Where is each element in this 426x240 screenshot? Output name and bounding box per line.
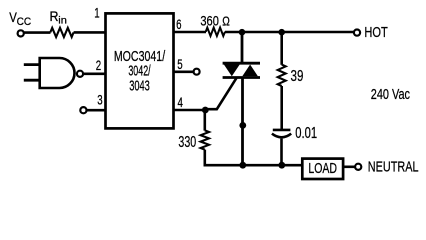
junction MT1 bottom rail	[239, 162, 246, 169]
triac Q1 top bar	[223, 62, 260, 65]
U1 value label MOC3041/3042/3043	[114, 48, 166, 95]
junction on MT1 wire	[239, 122, 246, 129]
junction capacitor bottom rail	[278, 162, 285, 169]
svg-text:360: 360	[200, 12, 219, 28]
wire pin 5	[174, 71, 194, 74]
wire triac MT2	[241, 32, 244, 63]
wire VCC to Rin	[24, 31, 51, 34]
svg-text:39: 39	[291, 68, 304, 85]
load box	[302, 159, 343, 179]
svg-text:0.01: 0.01	[295, 125, 317, 142]
resistor 360 ohm	[206, 28, 225, 36]
NAND gate U2 body	[40, 58, 75, 88]
svg-text:in: in	[58, 14, 67, 26]
NAND gate input wires	[24, 65, 41, 81]
wire 330 to bottom rail	[204, 150, 207, 167]
svg-text:Ω: Ω	[222, 13, 230, 28]
resistor Rin label	[50, 8, 68, 26]
svg-text:3: 3	[97, 91, 103, 107]
svg-text:240 Vac: 240 Vac	[371, 86, 411, 103]
op-coupler U1 MOC3041 box	[106, 13, 174, 128]
svg-text:6: 6	[176, 16, 182, 32]
pin 3 open terminal	[80, 107, 86, 113]
wire pin 6 to 360 resistor	[174, 31, 207, 34]
resistor Rin	[50, 28, 73, 37]
wire 360 resistor to HOT	[225, 31, 354, 34]
triac Q1 left triangle	[224, 65, 240, 77]
capacitor 0.01 top plate	[273, 129, 291, 132]
wire Rin to pin 1	[74, 31, 106, 34]
svg-text:4: 4	[178, 94, 184, 110]
svg-text:HOT: HOT	[364, 24, 387, 41]
junction triac MT2 top	[239, 29, 246, 36]
node VCC label	[9, 9, 31, 28]
NEUTRAL terminal	[355, 164, 361, 170]
junction snubber top	[278, 29, 285, 36]
svg-text:1: 1	[94, 5, 100, 21]
wire pin4 junction to 330 resistor	[204, 110, 207, 131]
wire triac gate	[205, 78, 236, 109]
wire triac MT1 down	[241, 79, 244, 166]
svg-text:5: 5	[177, 56, 183, 72]
svg-text:3043: 3043	[129, 77, 150, 94]
svg-text:NEUTRAL: NEUTRAL	[368, 158, 419, 175]
wire capacitor to bottom rail	[280, 139, 283, 166]
resistor 39	[278, 65, 286, 86]
resistor 330	[201, 130, 209, 149]
svg-text:CC: CC	[17, 16, 32, 28]
svg-text:R: R	[50, 8, 59, 24]
svg-text:2: 2	[96, 57, 102, 73]
HOT terminal	[354, 29, 360, 35]
VCC input terminal	[18, 30, 24, 36]
junction pin4 gate 330	[202, 107, 209, 114]
triac Q1 right triangle	[242, 65, 258, 77]
wire 39 resistor to capacitor	[280, 86, 283, 129]
wire pin 4	[174, 109, 206, 112]
svg-text:330: 330	[178, 134, 196, 151]
pin 5 open terminal	[194, 69, 200, 75]
wire LOAD to NEUTRAL	[343, 166, 355, 169]
wire NAND output to pin 2	[83, 73, 105, 76]
svg-text:LOAD: LOAD	[308, 160, 337, 177]
NAND gate output bubble	[77, 71, 83, 77]
wire bottom rail	[204, 164, 303, 167]
triac Q1 bottom bar	[223, 76, 260, 79]
wire pin 3	[87, 109, 106, 112]
wire snubber top to 39 resistor	[280, 32, 283, 65]
capacitor 0.01 curved plate	[272, 134, 291, 138]
